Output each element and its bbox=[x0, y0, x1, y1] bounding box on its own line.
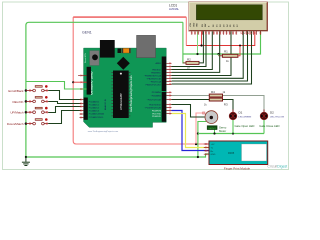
wire servo plate gnd bbox=[214, 130, 216, 134]
svg-text:R3: R3 bbox=[224, 102, 228, 106]
svg-text:Down/Match: Down/Match bbox=[7, 122, 24, 126]
wire servo 5V vertical bbox=[196, 113, 205, 144]
svg-text:PB4/MISO: PB4/MISO bbox=[151, 72, 161, 74]
arduino left pin stubs lower bbox=[80, 100, 84, 118]
svg-text:Finger Print Module: Finger Print Module bbox=[224, 166, 251, 170]
svg-text:+5V: +5V bbox=[211, 144, 215, 146]
svg-text:PC1/ADC1: PC1/ADC1 bbox=[89, 103, 100, 106]
led D2 bbox=[259, 110, 285, 129]
arduino small smd bbox=[118, 49, 122, 54]
wire lcd D6 lane bbox=[172, 31, 248, 81]
svg-text:DEL/OK: DEL/OK bbox=[12, 100, 23, 104]
svg-text:ATMEGA328P: ATMEGA328P bbox=[119, 93, 123, 110]
wire yellow TX bbox=[172, 114, 210, 148]
wire lcd D7 lane bbox=[172, 31, 252, 84]
lcd pin stubs bbox=[192, 31, 261, 35]
arduino right header bbox=[162, 57, 167, 92]
svg-text:PD7/AIN1: PD7/AIN1 bbox=[152, 91, 162, 94]
svg-text:www.TheEngineeringProjects.com: www.TheEngineeringProjects.com bbox=[88, 130, 119, 133]
pushbutton DEL/OK bbox=[12, 96, 48, 104]
wire blue RX bbox=[172, 111, 210, 151]
resistor R4 bbox=[209, 90, 226, 97]
wire R3 to D1 bbox=[223, 100, 234, 113]
wire led cathode rail bbox=[198, 133, 264, 135]
svg-text:PC4/ADC4/SDA: PC4/ADC4/SDA bbox=[89, 113, 105, 116]
servo base plate bbox=[207, 126, 217, 130]
svg-text:PD4/T0/XCK: PD4/T0/XCK bbox=[149, 104, 162, 106]
wire VDD stub bbox=[201, 31, 203, 45]
svg-text:LED-GREEN: LED-GREEN bbox=[239, 116, 252, 118]
arduino left pin ticks bbox=[80, 75, 82, 119]
sheet border bbox=[3, 2, 289, 170]
wire lcd RW lane bbox=[172, 31, 213, 69]
wire D2 cathode bbox=[263, 120, 265, 134]
svg-text:VEE: VEE bbox=[197, 22, 199, 27]
wire R3 lane bbox=[172, 99, 210, 101]
arduino reset button bbox=[90, 51, 100, 66]
pushbutton Enroll/Back bbox=[8, 85, 48, 93]
arduino usb connector bbox=[137, 35, 156, 57]
wire lcd RS lane bbox=[172, 31, 207, 66]
node 5V corner junction bbox=[72, 81, 74, 83]
svg-text:PC5/ADC5/SCL: PC5/ADC5/SCL bbox=[89, 116, 105, 119]
svg-text:D2: D2 bbox=[270, 110, 274, 114]
wire D1 cathode bbox=[232, 120, 234, 134]
svg-text:PD0/RXD: PD0/RXD bbox=[152, 116, 162, 118]
svg-text:Gate Close LED: Gate Close LED bbox=[259, 124, 279, 128]
lcd LCD1 bbox=[189, 2, 268, 35]
module pin names bbox=[211, 144, 216, 156]
led D1 bbox=[229, 110, 254, 129]
fingerprint module bbox=[204, 141, 268, 170]
watermark CircuitDigest bbox=[267, 165, 287, 169]
arduino GEN1 bbox=[78, 31, 171, 133]
node VSS junction bbox=[196, 53, 198, 55]
wire button4 to A3 bbox=[48, 111, 81, 124]
svg-text:~PB2/SS/OC1B: ~PB2/SS/OC1B bbox=[146, 78, 161, 80]
node pink module junction bbox=[195, 143, 197, 145]
svg-text:~PB3/MOSI/OC2A: ~PB3/MOSI/OC2A bbox=[144, 74, 162, 77]
svg-text:LED-YELLOW: LED-YELLOW bbox=[270, 116, 285, 118]
svg-text:Enroll/Back: Enroll/Back bbox=[8, 89, 24, 93]
svg-text:~PD3/INT1/OC2B: ~PD3/INT1/OC2B bbox=[144, 107, 161, 109]
svg-text:VSS: VSS bbox=[190, 22, 192, 27]
wire +5V LCD drop bbox=[185, 17, 187, 45]
wire GND lcd rail bbox=[183, 31, 261, 54]
svg-text:R4: R4 bbox=[211, 90, 215, 94]
wire 5V branch to arduino bbox=[73, 81, 86, 83]
wire +5V left vertical bbox=[73, 17, 209, 144]
svg-text:PD1/TXD: PD1/TXD bbox=[152, 113, 161, 115]
svg-text:ANALOG IN: ANALOG IN bbox=[104, 99, 107, 110]
wire green servo gnd vertical bbox=[198, 122, 206, 158]
svg-text:GEN1: GEN1 bbox=[82, 31, 92, 35]
node D1 rail junction bbox=[232, 132, 234, 134]
svg-text:Gate Open LED: Gate Open LED bbox=[235, 124, 255, 128]
svg-text:CircuitDigest: CircuitDigest bbox=[267, 165, 287, 169]
svg-text:PB0/ICP1/CLKO: PB0/ICP1/CLKO bbox=[146, 84, 162, 86]
wire lcd D4 lane bbox=[172, 31, 232, 75]
wire GND left rail bbox=[26, 22, 183, 157]
ground bbox=[22, 157, 30, 166]
lcd pin names bbox=[190, 22, 239, 27]
resistor R2 bbox=[183, 31, 204, 69]
arduino right pin labels lower bbox=[144, 91, 161, 118]
pushbutton UP/Match bbox=[10, 107, 48, 115]
node led rail junction bbox=[197, 132, 199, 134]
svg-text:D1: D1 bbox=[239, 110, 243, 114]
module pin stubs bbox=[204, 144, 209, 154]
wire VSS stub bbox=[197, 31, 199, 54]
arduino right pin labels upper bbox=[144, 62, 162, 86]
wire lcd E lane bbox=[172, 31, 220, 72]
arduino left header lower bbox=[84, 98, 88, 120]
wire lcd D5 lane bbox=[172, 31, 244, 78]
arduino resonator bbox=[122, 48, 131, 53]
lcd pin ticks bbox=[191, 32, 262, 34]
svg-text:R1: R1 bbox=[224, 50, 228, 54]
lcd LCD1 label bbox=[169, 3, 180, 11]
svg-text:VDD: VDD bbox=[193, 22, 195, 27]
module pin ticks bbox=[205, 143, 207, 155]
wire +5V top rail bbox=[73, 16, 186, 18]
wire GND lcd drop bbox=[183, 22, 186, 63]
svg-text:LM016L: LM016L bbox=[169, 7, 180, 11]
svg-text:~PD5/T1/OC0B: ~PD5/T1/OC0B bbox=[147, 99, 162, 101]
wire GND bottom rail bbox=[26, 154, 209, 157]
svg-text:~PB1/OC1A: ~PB1/OC1A bbox=[150, 80, 162, 83]
wire servo signal bbox=[172, 105, 205, 118]
svg-text:PC2/ADC2: PC2/ADC2 bbox=[89, 107, 100, 110]
svg-text:Motor: Motor bbox=[219, 129, 226, 133]
wire +5V LCD rail bbox=[186, 31, 255, 45]
svg-text:PC3/ADC3: PC3/ADC3 bbox=[89, 110, 100, 113]
svg-text:R305: R305 bbox=[228, 151, 235, 155]
arduino crystal diamond bbox=[117, 57, 130, 70]
pushbutton Down/Match bbox=[7, 118, 48, 126]
resistor R3 bbox=[204, 98, 228, 106]
svg-text:UP/Match: UP/Match bbox=[10, 111, 24, 115]
arduino board pcb bbox=[84, 48, 167, 127]
svg-text:Reset BTN: Reset BTN bbox=[84, 53, 87, 63]
node VDD junction bbox=[200, 44, 202, 46]
svg-text:PB5/SCK: PB5/SCK bbox=[152, 69, 161, 71]
node gnd bottom junction bbox=[25, 156, 27, 158]
arduino right pin ticks bbox=[169, 62, 171, 114]
arduino power jack bbox=[100, 40, 115, 58]
node R1 gnd junction bbox=[217, 53, 219, 55]
resistor R1 bbox=[219, 45, 242, 63]
svg-text:RW: RW bbox=[205, 24, 207, 27]
arduino left pin labels lower bbox=[89, 100, 105, 119]
wire R4 grey lane bbox=[172, 95, 210, 97]
svg-text:~PD6/AIN0: ~PD6/AIN0 bbox=[151, 94, 162, 97]
svg-text:www.TheEngineeringProjects.com: www.TheEngineeringProjects.com bbox=[130, 76, 133, 112]
svg-text:SERVO: SERVO bbox=[208, 128, 216, 130]
arduino left pin stubs upper bbox=[78, 75, 87, 77]
svg-text:PC0/ADC0: PC0/ADC0 bbox=[89, 100, 100, 103]
arduino left header upper bbox=[87, 67, 91, 95]
wire button1 to A0 bbox=[48, 91, 81, 100]
svg-text:PD2/INT0: PD2/INT0 bbox=[152, 110, 162, 112]
arduino right pin stubs upper bbox=[166, 63, 171, 113]
servo motor bbox=[202, 111, 226, 133]
wire GND branch to arduino bbox=[26, 82, 87, 90]
svg-text:GND: GND bbox=[211, 154, 216, 156]
wire button2 to A1 bbox=[48, 102, 81, 104]
svg-text:AREF: AREF bbox=[155, 62, 161, 65]
arduino atmega chip bbox=[113, 71, 129, 119]
wire button3 to A2 bbox=[48, 107, 81, 113]
node module gnd junction bbox=[197, 156, 199, 158]
wire R4 to D2 bbox=[223, 96, 265, 113]
